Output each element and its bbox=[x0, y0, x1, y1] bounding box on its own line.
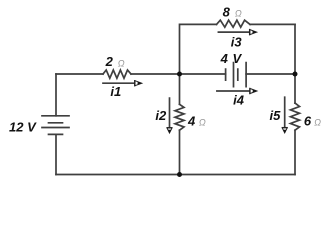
svg-text:12 V: 12 V bbox=[9, 120, 37, 135]
svg-text:8: 8 bbox=[223, 5, 231, 20]
svg-text:Ω: Ω bbox=[118, 58, 125, 68]
svg-text:i2: i2 bbox=[155, 108, 167, 123]
svg-text:6: 6 bbox=[304, 114, 312, 129]
svg-text:i4: i4 bbox=[233, 93, 245, 108]
svg-text:Ω: Ω bbox=[199, 118, 206, 128]
svg-text:V: V bbox=[232, 51, 242, 66]
svg-text:2: 2 bbox=[105, 54, 114, 69]
svg-text:Ω: Ω bbox=[235, 9, 242, 19]
svg-text:Ω: Ω bbox=[314, 118, 321, 128]
svg-text:i5: i5 bbox=[269, 108, 281, 123]
svg-text:4: 4 bbox=[220, 51, 229, 66]
svg-text:i3: i3 bbox=[231, 34, 243, 49]
svg-text:i1: i1 bbox=[110, 84, 121, 99]
svg-text:4: 4 bbox=[187, 114, 196, 129]
